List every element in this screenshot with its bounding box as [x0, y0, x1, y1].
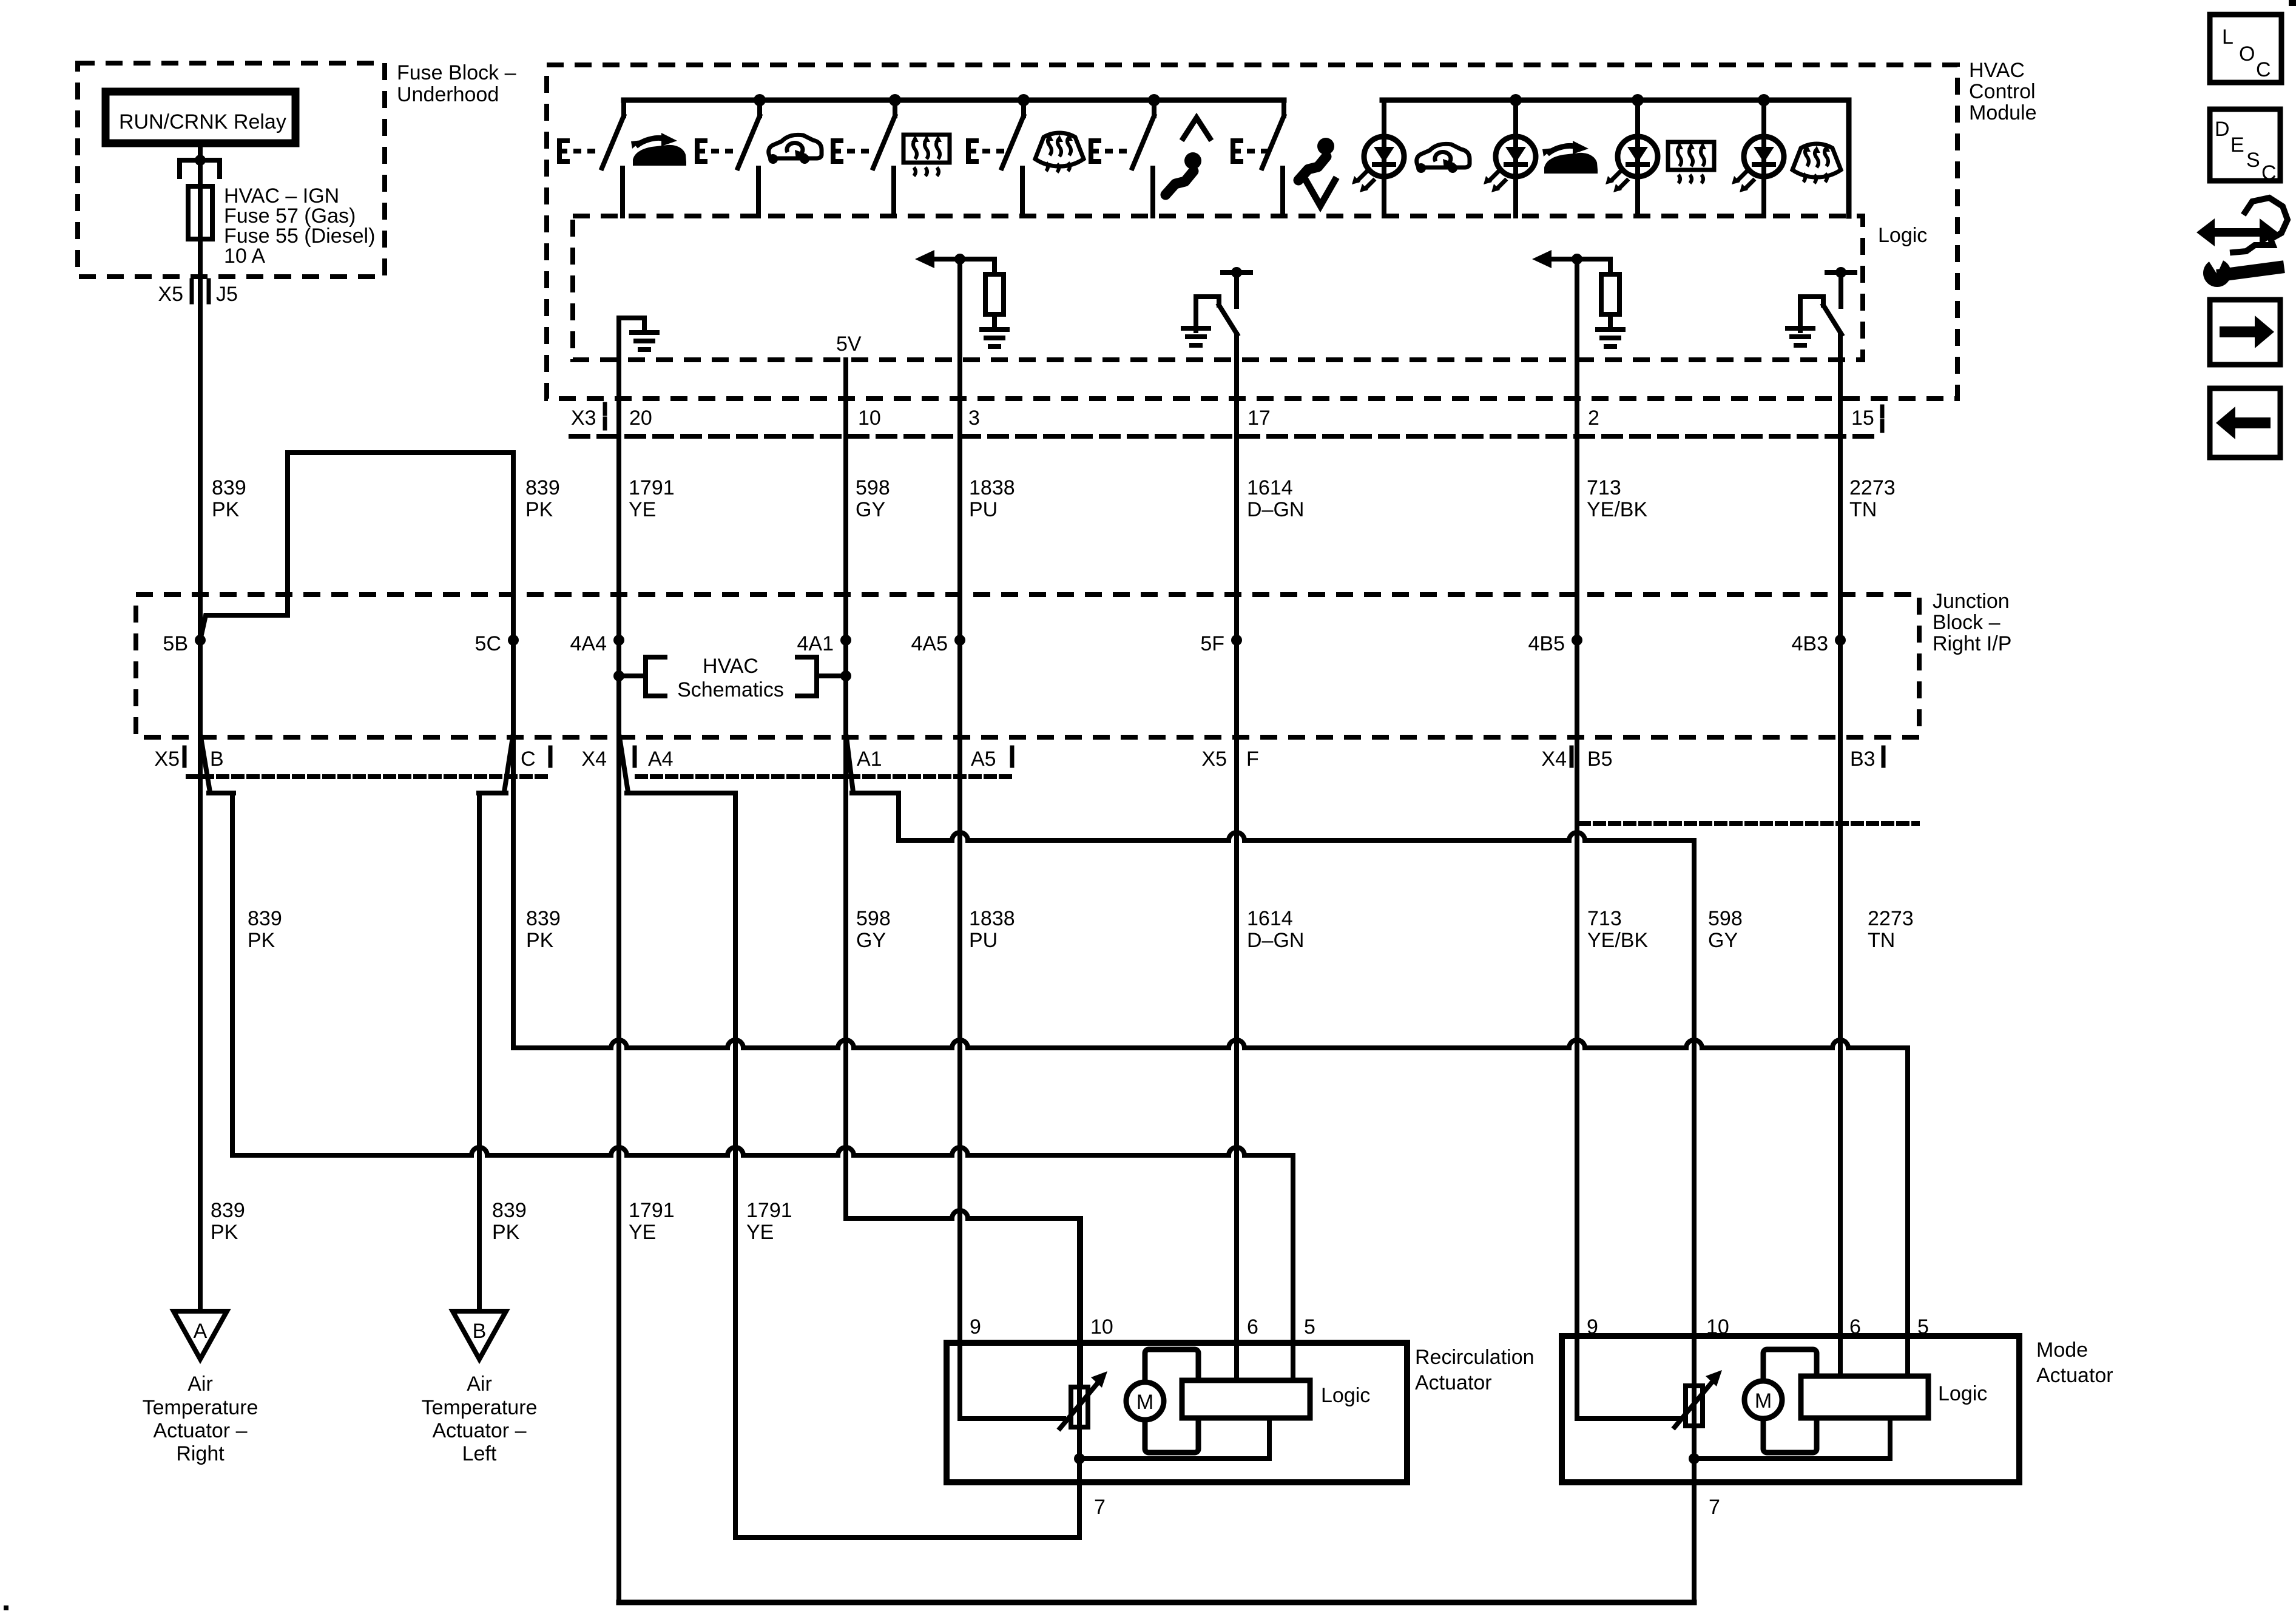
nav icon wrench diagnostic — [2196, 198, 2288, 287]
svg-text:M: M — [1136, 1391, 1153, 1414]
svg-text:M: M — [1755, 1389, 1772, 1413]
wire pin 2 — [1575, 259, 1579, 1419]
svg-text:Block –: Block – — [1933, 611, 2001, 634]
svg-text:O: O — [2239, 42, 2255, 66]
pull-up sensor arrow pin 2 — [1550, 257, 1577, 262]
svg-text:RUN/CRNK Relay: RUN/CRNK Relay — [119, 110, 286, 133]
node LED bus D2 — [1510, 94, 1522, 106]
svg-text:E: E — [2230, 133, 2244, 157]
svg-text:1791: 1791 — [746, 1199, 792, 1222]
mode logic tab to junction — [1694, 1418, 1890, 1459]
ground symbol pin 20 — [619, 318, 644, 436]
switch to ground pin 17 — [1223, 270, 1251, 275]
svg-text:Actuator –: Actuator – — [154, 1419, 248, 1442]
svg-text:1838: 1838 — [969, 476, 1015, 499]
pull-up sensor arrow pin 3 — [933, 257, 960, 262]
wire fuse down to junction block (839 PK) — [198, 239, 203, 1311]
icon hood release (LED row) — [1542, 141, 1598, 174]
node bus S4 — [1018, 94, 1030, 106]
svg-text:Actuator: Actuator — [2036, 1364, 2113, 1387]
svg-text:4B3: 4B3 — [1792, 632, 1829, 655]
wire H4 598 GY to mode pin 10 — [899, 832, 1694, 840]
svg-text:839: 839 — [248, 907, 282, 930]
icon hood release (switch row) — [631, 133, 686, 166]
svg-text:TN: TN — [1868, 929, 1895, 952]
page corner marks — [2289, 0, 2296, 6]
switch supply bus wire — [624, 98, 1284, 103]
resistor pull-up pin 3 — [960, 259, 994, 274]
recirc logic tab to junction — [1079, 1418, 1269, 1459]
svg-text:TN: TN — [1849, 498, 1877, 521]
fuse HVAC-IGN 10A — [198, 186, 203, 239]
mode motor body — [1763, 1349, 1817, 1453]
wire 839 PK C to horizontal H1 — [511, 640, 516, 1048]
LED indicator D1 — [1382, 100, 1386, 216]
svg-text:Left: Left — [462, 1442, 497, 1465]
connector X4 row (B5,B3) — [1580, 821, 1917, 826]
svg-text:X5: X5 — [1201, 748, 1227, 771]
wire mode pin7 to 1791 YE — [619, 1600, 1694, 1605]
HVAC Schematics reference brackets — [613, 670, 624, 681]
node 4B3 — [1835, 635, 1846, 646]
svg-text:PK: PK — [492, 1221, 520, 1244]
switch to ground pin 15 — [1827, 270, 1855, 275]
node 4A5 — [954, 635, 965, 646]
svg-text:713: 713 — [1587, 907, 1622, 930]
svg-text:YE/BK: YE/BK — [1587, 929, 1648, 952]
node recirc pot junction — [1074, 1453, 1085, 1464]
Logic inner dashed box — [573, 216, 1863, 360]
svg-text:PK: PK — [211, 1221, 238, 1244]
wire jog B branch — [201, 737, 210, 792]
svg-text:D: D — [2215, 118, 2230, 141]
svg-text:5: 5 — [1304, 1315, 1315, 1338]
HVAC Control Module outer dashed box — [547, 65, 1957, 399]
node bus S2 — [754, 94, 766, 106]
LED indicator D4 — [1761, 100, 1766, 216]
switch S6 — [1231, 100, 1284, 216]
node bus S5 — [1148, 94, 1160, 106]
svg-text:839: 839 — [492, 1199, 527, 1222]
svg-text:Logic: Logic — [1321, 1384, 1370, 1407]
recirc motor M — [1126, 1382, 1164, 1420]
svg-text:5C: 5C — [475, 632, 501, 655]
svg-text:B5: B5 — [1587, 748, 1613, 771]
svg-text:Actuator: Actuator — [1415, 1371, 1492, 1394]
svg-text:X5: X5 — [158, 283, 183, 306]
svg-text:A: A — [194, 1320, 208, 1343]
svg-text:Temperature: Temperature — [143, 1396, 258, 1419]
svg-text:4B5: 4B5 — [1528, 632, 1565, 655]
icon rear defrost (switch row) — [903, 135, 950, 176]
switch S2 — [695, 100, 760, 216]
wire pin10 5V — [843, 360, 848, 1218]
svg-text:X4: X4 — [581, 748, 607, 771]
mode motor M — [1744, 1381, 1782, 1419]
svg-text:YE: YE — [746, 1221, 774, 1244]
svg-text:7: 7 — [1709, 1496, 1720, 1519]
wire relay to fuse — [198, 143, 203, 186]
node 5C — [508, 635, 519, 646]
svg-text:598: 598 — [856, 907, 891, 930]
svg-text:Schematics: Schematics — [677, 678, 784, 701]
svg-text:839: 839 — [212, 476, 246, 499]
node 4A1 — [840, 635, 851, 646]
icon windshield defrost (LED row) — [1792, 144, 1841, 183]
wire 839 PK to actuator B — [477, 793, 482, 1311]
wire jog C branch — [504, 737, 513, 792]
svg-text:Underhood: Underhood — [397, 83, 499, 106]
node LED bus D4 — [1758, 94, 1770, 106]
svg-text:PU: PU — [969, 929, 998, 952]
ground resistor pin 2 — [1598, 329, 1623, 346]
svg-text:Module: Module — [1969, 101, 2037, 124]
Mode Actuator box — [1562, 1336, 2019, 1482]
connector X5/J5 ticks — [190, 280, 194, 302]
switch S3 — [831, 100, 895, 216]
svg-text:713: 713 — [1587, 476, 1621, 499]
fuse block underhood dashed box — [78, 63, 385, 277]
svg-text:598: 598 — [1708, 907, 1743, 930]
node 4B5 — [1572, 635, 1582, 646]
svg-text:YE: YE — [629, 498, 656, 521]
svg-text:Right: Right — [176, 1442, 225, 1465]
node LED bus D3 — [1632, 94, 1644, 106]
svg-text:L: L — [2222, 25, 2234, 49]
node 4A4 — [613, 635, 624, 646]
svg-text:2273: 2273 — [1849, 476, 1896, 499]
mode pin9 wire to pot — [1577, 1416, 1678, 1421]
recirc pin9 wire to pot — [960, 1416, 1064, 1421]
connector X4 row (A4,A1,A5) — [637, 774, 1011, 779]
svg-text:598: 598 — [856, 476, 890, 499]
node 5F — [1231, 635, 1242, 646]
svg-text:2273: 2273 — [1868, 907, 1914, 930]
Junction Block - Right I/P dashed box — [136, 595, 1919, 737]
wire 598 GY branch to H4 — [896, 793, 901, 840]
LED supply bus wire — [1382, 98, 1849, 103]
wire jog A4 branch — [620, 737, 628, 792]
svg-text:X3: X3 — [571, 407, 596, 430]
svg-text:HVAC: HVAC — [703, 655, 758, 678]
svg-text:839: 839 — [211, 1199, 245, 1222]
svg-text:C: C — [521, 748, 536, 771]
nav icon arrow left — [2210, 388, 2280, 457]
icon rear defrost (LED row) — [1668, 142, 1714, 183]
icon recirculation car (switch row) — [768, 135, 822, 164]
svg-text:10: 10 — [858, 407, 881, 430]
Recirculation Actuator box — [947, 1343, 1407, 1482]
svg-text:A5: A5 — [971, 748, 996, 771]
svg-text:D–GN: D–GN — [1247, 498, 1304, 521]
svg-text:C: C — [2261, 161, 2277, 184]
recirc potentiometer — [1077, 1218, 1082, 1387]
connector X3 row — [571, 434, 1881, 439]
nav icon arrow right — [2210, 300, 2280, 365]
svg-text:Recirculation: Recirculation — [1415, 1346, 1535, 1369]
svg-text:10: 10 — [1090, 1315, 1113, 1338]
svg-text:839: 839 — [525, 476, 560, 499]
wire H3 598 GY to recirc pin 10 — [843, 1216, 848, 1221]
svg-text:1614: 1614 — [1247, 907, 1293, 930]
icon seat person vent up — [1166, 152, 1201, 195]
svg-text:GY: GY — [856, 929, 886, 952]
wire 1791 YE second branch — [733, 793, 738, 1538]
icon recirculation car (LED row) — [1416, 144, 1470, 173]
nav icon DESC — [2210, 109, 2280, 181]
svg-text:1838: 1838 — [969, 907, 1015, 930]
icon seat person vent down — [1298, 138, 1334, 180]
svg-text:Logic: Logic — [1938, 1382, 1987, 1405]
svg-text:A1: A1 — [857, 748, 882, 771]
svg-text:Temperature: Temperature — [422, 1396, 538, 1419]
wire H1 839 PK to mode pin 5 — [513, 1040, 1908, 1048]
svg-text:Logic: Logic — [1878, 224, 1927, 247]
svg-text:B: B — [210, 748, 224, 771]
svg-text:X4: X4 — [1541, 748, 1567, 771]
svg-text:J5: J5 — [216, 283, 238, 306]
svg-text:15: 15 — [1851, 407, 1874, 430]
svg-text:6: 6 — [1247, 1315, 1258, 1338]
node mode pot junction — [1689, 1453, 1700, 1464]
svg-text:PK: PK — [212, 498, 240, 521]
svg-text:C: C — [2256, 58, 2271, 81]
svg-text:10 A: 10 A — [224, 245, 265, 268]
recirc logic box — [1182, 1380, 1310, 1418]
wire recirc pin7 to 1791 YE — [735, 1535, 1079, 1540]
svg-text:6: 6 — [1849, 1315, 1861, 1338]
node 5B — [195, 635, 206, 646]
svg-text:4A4: 4A4 — [570, 632, 607, 655]
wire H2 839 PK to recirc pin 5 — [232, 1147, 1293, 1155]
svg-text:Air: Air — [187, 1372, 213, 1396]
connector X5 row (B,C) — [188, 774, 549, 779]
svg-text:5V: 5V — [836, 333, 862, 356]
svg-text:4A5: 4A5 — [911, 632, 948, 655]
svg-text:839: 839 — [526, 907, 561, 930]
svg-text:4A1: 4A1 — [797, 632, 834, 655]
svg-text:YE: YE — [629, 1221, 656, 1244]
svg-text:7: 7 — [1094, 1496, 1106, 1519]
LED bus drop into logic — [1846, 100, 1852, 216]
LED indicator D3 — [1635, 100, 1640, 216]
RUN/CRNK Relay K — [106, 92, 295, 143]
recirc motor body — [1145, 1349, 1198, 1453]
svg-text:Mode: Mode — [2036, 1338, 2088, 1362]
svg-text:Right I/P: Right I/P — [1933, 632, 2011, 655]
node bus S3 — [889, 94, 901, 106]
switch S5 — [1089, 100, 1154, 216]
svg-text:1791: 1791 — [629, 1199, 675, 1222]
svg-text:D–GN: D–GN — [1247, 929, 1304, 952]
svg-text:PU: PU — [969, 498, 998, 521]
wire pin 15 — [1838, 334, 1843, 1380]
wire 839 PK branch B to horizontal H2 — [230, 793, 235, 1155]
switch S1 — [557, 100, 624, 216]
svg-text:2: 2 — [1588, 407, 1599, 430]
icon windshield defrost (switch row) — [1035, 133, 1084, 172]
svg-text:S: S — [2246, 149, 2260, 172]
node relay output — [195, 155, 206, 166]
nav icon LOC — [2210, 15, 2281, 83]
svg-text:B3: B3 — [1850, 748, 1876, 771]
wire 1791 YE pin20 full drop — [616, 436, 621, 1602]
svg-text:Junction: Junction — [1933, 590, 2010, 613]
svg-text:Control: Control — [1969, 80, 2036, 103]
svg-text:3: 3 — [968, 407, 980, 430]
wire bridge 5B to 5C — [200, 453, 513, 640]
svg-text:9: 9 — [970, 1315, 981, 1338]
ground resistor pin 3 — [982, 329, 1007, 346]
svg-text:PK: PK — [248, 929, 275, 952]
relay output terminal bracket — [180, 160, 220, 177]
resistor pull-up pin 2 — [1577, 259, 1610, 274]
svg-text:YE/BK: YE/BK — [1587, 498, 1647, 521]
svg-text:Fuse Block –: Fuse Block – — [397, 61, 516, 84]
switch S4 — [966, 100, 1024, 216]
LED indicator D2 — [1513, 100, 1518, 216]
svg-text:1791: 1791 — [629, 476, 675, 499]
svg-text:HVAC: HVAC — [1969, 59, 2025, 82]
svg-text:10: 10 — [1706, 1315, 1729, 1338]
wire jog A1 branch — [846, 737, 853, 792]
wire pin 17 — [1234, 334, 1239, 1380]
air temperature actuator left (B) — [453, 1311, 506, 1359]
svg-text:17: 17 — [1248, 407, 1271, 430]
svg-text:Air: Air — [467, 1372, 492, 1396]
svg-text:PK: PK — [526, 929, 554, 952]
svg-text:9: 9 — [1587, 1315, 1598, 1338]
mode logic box — [1801, 1376, 1928, 1418]
svg-text:F: F — [1246, 748, 1259, 771]
svg-text:1614: 1614 — [1247, 476, 1293, 499]
wire pin 3 — [957, 259, 962, 1419]
svg-text:5F: 5F — [1200, 632, 1224, 655]
svg-text:Actuator –: Actuator – — [433, 1419, 527, 1442]
svg-text:20: 20 — [629, 407, 652, 430]
svg-text:A4: A4 — [648, 748, 674, 771]
svg-text:5: 5 — [1917, 1315, 1929, 1338]
svg-text:B: B — [473, 1320, 487, 1343]
svg-text:X5: X5 — [154, 748, 180, 771]
svg-text:GY: GY — [856, 498, 885, 521]
svg-text:GY: GY — [1708, 929, 1738, 952]
svg-text:5B: 5B — [163, 632, 188, 655]
mode potentiometer — [1686, 1386, 1703, 1426]
air temperature actuator right (A) — [174, 1311, 227, 1359]
svg-text:PK: PK — [525, 498, 553, 521]
